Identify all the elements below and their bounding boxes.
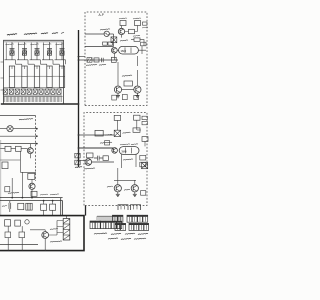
resistor R18 — [51, 89, 55, 94]
components row wire — [85, 59, 118, 61]
resistor R40 — [15, 220, 21, 226]
labels above Z2 — [120, 144, 130, 145]
filter Z1 (EMF) — [119, 46, 139, 54]
IF transformer T4 — [47, 66, 52, 88]
transistor VT6 — [114, 185, 121, 192]
wire can link 4 — [52, 75, 59, 77]
labels over wire — [100, 142, 112, 143]
bus wire 1 — [0, 197, 63, 199]
wires below Z2 — [122, 155, 137, 169]
resistor R26 — [103, 156, 108, 161]
resistor R15 — [134, 38, 140, 41]
capacitor C20 — [114, 115, 120, 120]
resistor R16 — [124, 81, 132, 86]
under-can bus — [4, 87, 64, 89]
transformer T10 winding column — [63, 219, 70, 241]
relay contact bracket K1 — [118, 205, 128, 210]
wire line2 — [0, 135, 37, 137]
capacitor C11 — [141, 42, 146, 46]
transistor VT3 — [134, 86, 141, 93]
ground VT2 — [117, 93, 119, 95]
resistor R18 — [122, 94, 127, 99]
IF transformer T2 — [22, 66, 27, 88]
tiny label right of A5 — [97, 220, 101, 223]
transistor VT0 — [118, 28, 124, 34]
svg-text:ЭМФ: ЭМФ — [121, 150, 127, 153]
resistor R25 — [87, 153, 93, 158]
resistor R37 — [41, 204, 47, 210]
wire mic line — [0, 128, 37, 130]
wire can link 1 — [15, 75, 22, 77]
trimmer C32 — [25, 220, 29, 224]
vertical wires A5 — [8, 226, 22, 245]
microphone X1 — [7, 126, 13, 132]
connector XP1 cells — [90, 221, 95, 229]
svg-text:А-Р: А-Р — [99, 13, 104, 17]
transistor VT10 — [42, 232, 49, 239]
capacitor C21 — [134, 115, 140, 120]
wire VT5 output — [79, 148, 115, 162]
resistor R32 — [2, 162, 8, 169]
transistor VT1 — [111, 47, 117, 53]
small parts top-right corner — [143, 22, 148, 25]
labels under row — [86, 64, 97, 65]
wire row link — [3, 95, 62, 97]
block A4 top border — [0, 115, 36, 117]
vertical wires to bus — [12, 172, 22, 197]
wire bus to A3 filter — [79, 147, 115, 149]
block A5 frame — [0, 216, 84, 251]
resistor R23 — [140, 155, 146, 160]
wire A3 to A5 bold vertical — [85, 206, 87, 216]
wires down to VT2 stage — [118, 56, 137, 86]
ground VT6 — [117, 192, 119, 194]
resistor R15 — [33, 89, 37, 94]
generator G1 — [104, 31, 109, 36]
resistor R14 — [111, 57, 116, 62]
resistor R19 — [57, 89, 61, 94]
left border ticks — [1, 62, 4, 90]
junction node bus/A1 — [78, 103, 80, 105]
IF transformer T5 — [59, 66, 64, 88]
junction dots on bus — [11, 197, 13, 199]
label stage 1 — [5, 44, 13, 45]
transistor VT2 — [114, 86, 121, 93]
crystal ZQ3 — [142, 163, 148, 169]
wire line3 — [0, 143, 37, 145]
label left — [2, 205, 7, 208]
label stage 4 — [43, 44, 51, 45]
label ZQ1 — [120, 40, 128, 41]
label group above A1 — [7, 34, 17, 35]
resistor R41 — [5, 232, 11, 238]
resistor R38 — [50, 204, 56, 210]
resistor R34 — [5, 187, 10, 192]
transistor VT4 — [112, 148, 118, 154]
capacitor C22 — [105, 141, 110, 145]
stage rail 1 — [5, 43, 7, 61]
main vertical bus wire — [78, 30, 80, 167]
wires T10 taps — [57, 216, 67, 233]
capacitor C23 — [94, 156, 103, 161]
resistor R10 — [103, 42, 108, 45]
labels band — [8, 192, 19, 193]
labels lower-left A3 — [75, 167, 82, 168]
pin comb bottom row — [3, 97, 61, 102]
stage rail 2 — [18, 43, 20, 61]
transistor VT8 — [27, 148, 33, 154]
resistor R19 — [134, 95, 139, 99]
wire bus stub to A2 — [79, 57, 86, 60]
trimmer capacitor C1 — [11, 42, 13, 57]
thin bus inside A5 — [0, 244, 38, 246]
wire can link 3 — [40, 75, 47, 77]
labels near VT6/VT7 — [107, 186, 113, 187]
paper edge shadow — [0, 140, 1, 215]
ground VT7 — [134, 192, 136, 194]
wire to VT6 — [114, 168, 136, 184]
capacitor C31 — [5, 220, 11, 226]
resistor R16 — [39, 89, 43, 94]
trimmer capacitor C3 — [36, 42, 38, 57]
label stage 2 — [18, 44, 26, 45]
labels mid A2 — [122, 75, 132, 76]
connector labels row2 — [108, 238, 118, 239]
resistor R24 — [140, 162, 146, 167]
junction node bus y135 — [78, 134, 80, 136]
stage rail 3 — [30, 43, 32, 61]
resistor R30 — [5, 146, 11, 151]
connector XP1 pin ticks — [97, 216, 121, 220]
label stage 5 — [55, 44, 63, 45]
transistor VT7 — [131, 185, 138, 192]
block A1 frame (crystal filter bank) — [4, 40, 64, 104]
block A3 dashed frame — [84, 113, 147, 206]
IF transformer T3 — [34, 66, 39, 88]
bottom bus of block A1 to main bus — [1, 103, 79, 105]
inner top rail A1 — [4, 41, 64, 43]
trimmer capacitor C2 — [24, 42, 26, 57]
wire can link 2 — [27, 75, 34, 77]
block A2 dashed frame — [85, 12, 147, 106]
wire second horizontal — [85, 46, 114, 48]
bus to A5 verticals — [61, 198, 63, 216]
resistor R35 — [31, 191, 37, 196]
resistor R9 — [135, 21, 141, 26]
connector XP2 row2 — [115, 223, 120, 230]
capacitor C10 — [102, 58, 104, 62]
wire filter out — [138, 46, 146, 54]
wire stage 2 mesh — [17, 57, 28, 64]
wires A4 mid — [0, 148, 27, 150]
transistor VT9 — [29, 183, 35, 189]
resistor R14 — [27, 89, 31, 94]
resistor R12 — [15, 89, 19, 94]
resistor R8 — [120, 21, 126, 26]
capacitor C9 — [129, 29, 135, 33]
wire vertical right — [113, 34, 115, 47]
resistor R27 — [141, 191, 146, 196]
trimmer capacitor C4 — [49, 42, 51, 57]
resistor R12 — [87, 58, 92, 63]
wire stage 3 mesh — [30, 57, 41, 64]
resistor R13 — [21, 89, 25, 94]
resistor R20 — [95, 130, 103, 136]
ground VT3 — [136, 93, 138, 95]
wire stage 4 mesh — [42, 57, 53, 64]
wire input top — [85, 33, 104, 35]
connector labels row1 — [94, 233, 107, 234]
label G1 — [100, 29, 110, 30]
IF transformer T1 — [9, 66, 14, 88]
svg-text:ЭМФ: ЭМФ — [121, 50, 127, 53]
wire stage 5 mesh — [55, 57, 66, 64]
resistor R31 — [16, 146, 22, 151]
resistor R17 — [45, 89, 49, 94]
wire bus to A3 upper — [79, 134, 115, 136]
resistor R13 — [94, 58, 99, 62]
resistor R21 — [133, 128, 140, 132]
label stage 3 — [30, 44, 38, 45]
relay contact bracket K2 — [131, 205, 141, 210]
resistor R17 — [112, 95, 117, 100]
stage rail 4 — [43, 43, 45, 61]
transistor VT5 — [85, 159, 92, 166]
resistor R11 — [9, 89, 13, 94]
resistor R10 — [3, 89, 7, 94]
resistor R22 — [142, 137, 148, 142]
connector XP2 row1 — [112, 215, 117, 222]
crystal ZQ2 — [114, 130, 120, 136]
crystal ZQ1 — [111, 37, 117, 43]
small parts right edge — [142, 116, 147, 119]
labels in A5 — [50, 241, 62, 242]
bus wire 2 — [0, 200, 63, 202]
resistor R33 — [28, 173, 35, 179]
trimmer capacitor C5 — [61, 42, 63, 57]
capacitor C30 — [9, 201, 11, 212]
label A4 — [19, 119, 33, 120]
resistor R42 — [19, 232, 25, 238]
filter Z2 (EMF) — [119, 147, 139, 155]
wire VT2-VT3 — [122, 89, 134, 91]
wire stage 1 mesh — [5, 57, 16, 64]
resistor R36 — [18, 203, 24, 209]
left cluster resistors — [75, 153, 80, 158]
choke L1 — [26, 203, 32, 210]
block A4 right dashed border — [35, 116, 37, 182]
resistor R11 — [108, 42, 113, 45]
junction node bus y148 — [78, 147, 80, 149]
stage rail 5 — [55, 43, 57, 61]
